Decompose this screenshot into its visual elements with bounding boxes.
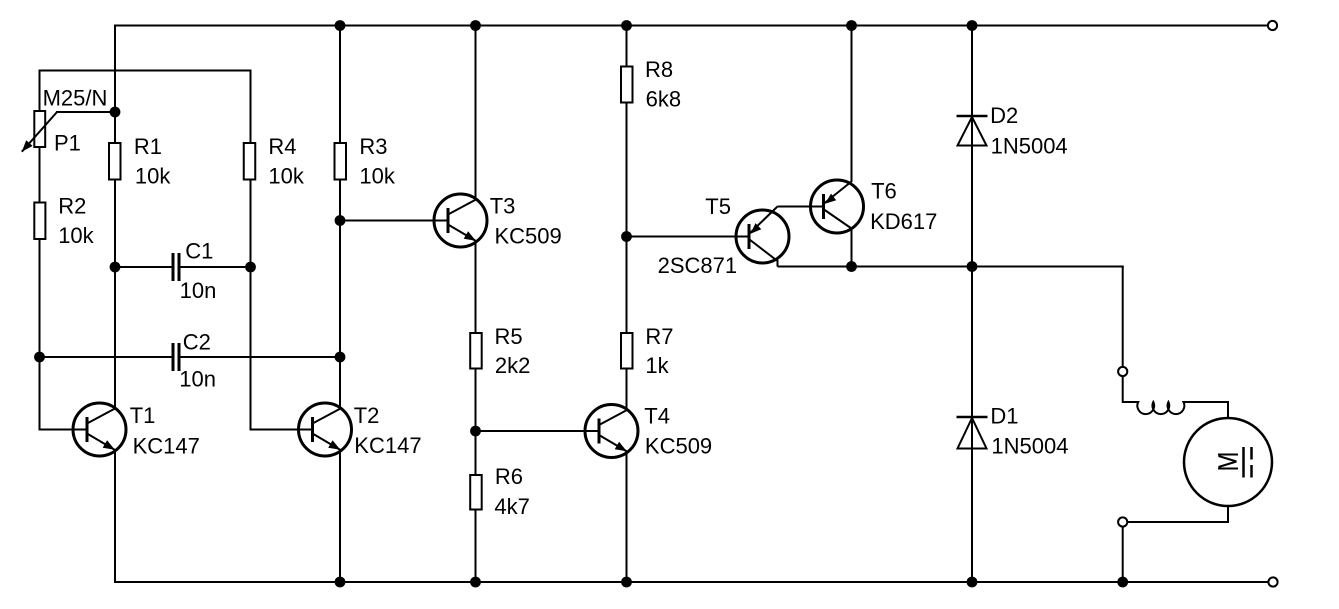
svg-text:10k: 10k (58, 223, 94, 248)
resistor R1 (109, 143, 121, 180)
svg-text:R8: R8 (645, 57, 673, 82)
transistor T6 (811, 180, 864, 233)
wire: left main vertical upper segment (114, 25, 116, 143)
svg-text:6k8: 6k8 (646, 87, 681, 112)
node: bottom rail T2 junction (335, 577, 346, 588)
wire: C2 right lead (181, 356, 341, 358)
svg-text:D2: D2 (990, 103, 1018, 128)
node: bottom rail R6 junction (470, 577, 481, 588)
node: top rail R8 junction (621, 20, 632, 31)
terminal: lower motor connector (1118, 517, 1127, 526)
svg-text:T4: T4 (644, 403, 670, 428)
wire: R3 bottom to T2 collector (339, 179, 341, 410)
wire: R8 bottom to R7 top (626, 104, 628, 333)
svg-text:KC147: KC147 (354, 433, 421, 458)
svg-text:1k: 1k (645, 353, 669, 378)
svg-text:R3: R3 (359, 134, 387, 159)
svg-text:T1: T1 (130, 403, 156, 428)
svg-text:10n: 10n (179, 366, 216, 391)
wire: connector to bottom rail (1122, 527, 1124, 583)
svg-text:R5: R5 (495, 324, 523, 349)
svg-text:C2: C2 (183, 330, 211, 355)
svg-text:4k7: 4k7 (494, 494, 529, 519)
svg-text:1N5004: 1N5004 (991, 134, 1068, 159)
node: C2 left junction (34, 352, 45, 363)
resistor R4 (244, 143, 256, 180)
wire: output horizontal wire (778, 266, 1124, 268)
svg-text:T2: T2 (354, 403, 380, 428)
wire: R2 bottom down to T1 base corner (40, 239, 88, 430)
bottom supply rail (115, 581, 1268, 583)
svg-text:1N5004: 1N5004 (991, 433, 1068, 458)
svg-text:10k: 10k (359, 164, 395, 189)
resistor R3 (335, 143, 347, 180)
wire: R6 bottom to bottom rail (475, 510, 477, 583)
svg-text:P1: P1 (54, 130, 81, 155)
svg-text:M25/N: M25/N (43, 85, 108, 110)
svg-text:R6: R6 (495, 464, 523, 489)
svg-text:R2: R2 (58, 193, 86, 218)
node: top rail diode junction (967, 20, 978, 31)
top supply rail (115, 25, 1268, 27)
wire: T5 base wire (627, 236, 750, 238)
wire: connector down to inductor elbow (1122, 376, 1124, 403)
wire: left main vertical lower segment (114, 450, 116, 583)
svg-text:10k: 10k (135, 164, 171, 189)
wire: R7 bottom to T4 collector (626, 370, 628, 411)
wire: T5 collector elbow down (777, 260, 779, 267)
wire: T4 emitter to bottom rail (626, 452, 628, 583)
svg-text:10k: 10k (268, 164, 304, 189)
wire: R5 bottom to R6 top (475, 369, 477, 476)
wire: T2 emitter to bottom rail (339, 450, 341, 582)
wire: C1 left lead (115, 266, 172, 268)
transistor T2 (299, 403, 352, 456)
svg-text:KC147: KC147 (133, 433, 200, 458)
node: bottom rail T4 junction (621, 577, 632, 588)
node: wiper junction (110, 107, 121, 118)
node: C1 right junction (245, 262, 256, 273)
node: R3 top rail junction (335, 20, 346, 31)
wire: R8 top lead (626, 26, 628, 66)
node: top rail T6 junction (846, 20, 857, 31)
wire: T3 collector to top rail (475, 26, 477, 201)
svg-text:C1: C1 (185, 239, 213, 264)
node: bottom rail motor junction (1117, 577, 1128, 588)
svg-text:T3: T3 (490, 194, 516, 219)
wire: T6 emitter to top rail (851, 26, 853, 183)
resistor R2 (34, 203, 45, 240)
node: T3 base branch junction (335, 215, 346, 226)
node: T5 base branch junction (621, 231, 632, 242)
wire: P1 top feed from horizontal wire (39, 70, 41, 112)
diode D2 (957, 116, 988, 146)
node: T4 base junction (470, 426, 481, 437)
wire: T4 base wire (476, 430, 600, 432)
bottom-right terminal (1268, 577, 1277, 586)
top-right terminal (1268, 21, 1277, 30)
resistor R8 (621, 67, 633, 103)
svg-text:KD617: KD617 (870, 209, 937, 234)
wire: left main vertical middle segment (114, 179, 116, 410)
wire: C2 left lead (40, 356, 172, 358)
transistor T4 (585, 405, 638, 458)
wire + inductor L1 (1123, 402, 1228, 419)
diode D1 (957, 417, 988, 449)
wire: T3 emitter to R5 (475, 241, 477, 333)
node: C2 right junction (335, 352, 346, 363)
potentiometer P1 (22, 111, 57, 152)
wire: diode column vertical (971, 26, 973, 583)
wire: R4 bottom down to T2 base (251, 179, 313, 430)
svg-text:D1: D1 (990, 403, 1018, 428)
wire: output to upper motor terminal (1122, 266, 1124, 368)
node: output junction T6 (846, 261, 857, 272)
svg-text:R1: R1 (134, 134, 162, 159)
resistor R7 (621, 333, 633, 369)
svg-text:KC509: KC509 (645, 433, 712, 458)
svg-text:R7: R7 (645, 324, 673, 349)
wire: P1 wiper to node (56, 111, 115, 113)
svg-text:R4: R4 (268, 134, 296, 159)
transistor T1 (73, 403, 126, 456)
svg-text:KC509: KC509 (495, 224, 562, 249)
wire: horizontal wire P1 top to R4 top (39, 70, 252, 72)
capacitor C1 (173, 253, 179, 281)
svg-text:2SC871: 2SC871 (658, 253, 738, 278)
wire: motor bottom lead (1128, 506, 1229, 522)
svg-text:10n: 10n (180, 278, 217, 303)
capacitor C2 (173, 343, 179, 371)
motor M1 (1184, 418, 1272, 506)
transistor T5 (736, 207, 789, 264)
resistor R6 (470, 475, 482, 510)
svg-text:T5: T5 (705, 194, 731, 219)
wire: C1 right lead (181, 266, 251, 268)
wire: R4 top lead (250, 71, 252, 143)
node: top rail T3 junction (470, 20, 481, 31)
node: bottom rail diode junction (967, 577, 978, 588)
svg-text:2k2: 2k2 (495, 353, 530, 378)
transistor T3 (434, 194, 487, 247)
svg-text:T6: T6 (871, 179, 897, 204)
wire: P1 bottom to R2 top (39, 147, 41, 203)
wire: T6 collector down to output node (851, 228, 853, 267)
resistor R5 (470, 333, 482, 369)
node: R1 bottom / C1 left junction (110, 262, 121, 273)
wire: T3 base wire (340, 220, 448, 222)
terminal: upper motor connector (1118, 367, 1127, 376)
wire: T5 emitter to T6 base (778, 206, 824, 208)
node: output junction diodes (967, 261, 978, 272)
wire: R3 top lead (339, 26, 341, 143)
